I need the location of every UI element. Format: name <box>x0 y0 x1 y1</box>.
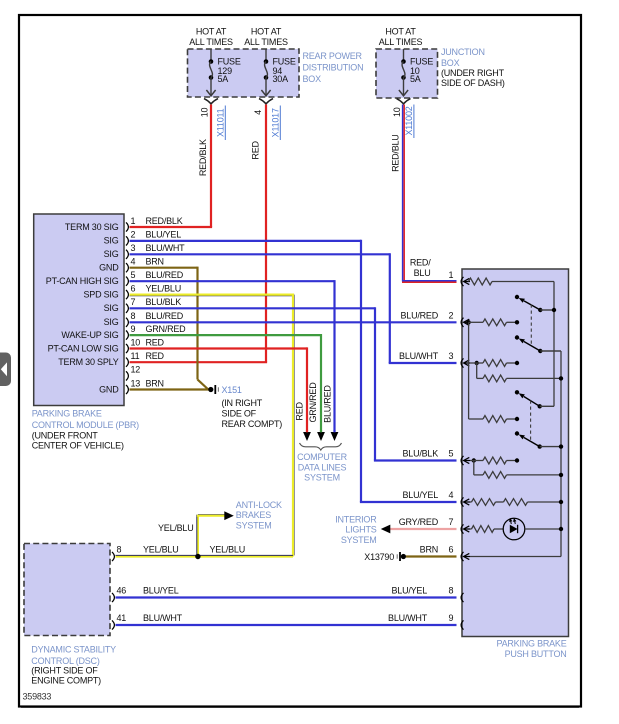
wire BLU/YEL PBR pin2 to push button pin4 <box>130 240 362 242</box>
resistor pin7 <box>470 528 472 530</box>
svg-text:JUNCTION: JUNCTION <box>441 47 485 57</box>
resistor pin5 upper <box>472 458 476 462</box>
svg-text:2: 2 <box>131 230 136 240</box>
pin3 lower branch <box>476 363 478 378</box>
svg-text:8: 8 <box>117 545 122 555</box>
svg-text:BRN: BRN <box>420 545 438 555</box>
svg-text:9: 9 <box>449 613 454 623</box>
wire YEL/BLU PBR pin6 riser <box>130 295 295 297</box>
PBR pin 8 (SIG) <box>126 318 128 327</box>
PBR pin 6 (SPD SIG) <box>126 290 128 299</box>
svg-text:12: 12 <box>131 365 141 375</box>
bus from pin1 to switch3 <box>553 282 555 407</box>
wire GRY/RED push button pin7 to interior lights <box>390 528 457 530</box>
dynamic stability control box (dashed) <box>24 544 110 636</box>
wire RED/BLK fuse129 to PBR pin1 <box>210 105 212 228</box>
svg-text:BLU: BLU <box>414 268 431 278</box>
interior lights arrow <box>381 525 391 534</box>
push button pin 9 connector <box>461 620 463 629</box>
svg-text:RED/BLK: RED/BLK <box>146 216 183 226</box>
svg-text:DYNAMIC STABILITY: DYNAMIC STABILITY <box>31 644 116 654</box>
svg-text:BLU/BLK: BLU/BLK <box>146 297 182 307</box>
svg-text:3: 3 <box>449 351 454 361</box>
anti-lock brakes arrow <box>224 511 234 520</box>
wire YEL/BLU DSC pin8 run <box>116 555 294 557</box>
DSC pin 8 <box>112 552 114 561</box>
push button pin 4 connector <box>461 497 463 506</box>
svg-text:BOX: BOX <box>441 58 460 68</box>
svg-text:YEL/BLU: YEL/BLU <box>143 545 178 555</box>
svg-text:REAR POWER: REAR POWER <box>303 51 363 61</box>
svg-text:HOT AT: HOT AT <box>251 27 282 37</box>
svg-text:41: 41 <box>117 613 127 623</box>
svg-text:SIG: SIG <box>104 317 119 327</box>
svg-text:BLU/WHT: BLU/WHT <box>388 613 428 623</box>
data line down arrows <box>303 432 311 441</box>
parking brake push button box <box>462 269 569 637</box>
svg-text:SIG: SIG <box>104 249 119 259</box>
svg-text:BLU/YEL: BLU/YEL <box>403 490 439 500</box>
svg-text:(RIGHT SIDE OF: (RIGHT SIDE OF <box>31 666 98 676</box>
svg-text:HOT AT: HOT AT <box>385 27 416 37</box>
svg-text:SIDE OF: SIDE OF <box>222 408 257 418</box>
svg-text:FUSE: FUSE <box>273 56 296 66</box>
svg-text:BRN: BRN <box>146 378 164 388</box>
svg-text:X11017: X11017 <box>270 108 280 137</box>
svg-text:RED/: RED/ <box>410 258 431 268</box>
svg-text:RED: RED <box>146 351 165 361</box>
svg-text:7: 7 <box>449 517 454 527</box>
svg-text:BLU/WHT: BLU/WHT <box>146 243 186 253</box>
svg-text:REAR COMPT): REAR COMPT) <box>222 419 283 429</box>
LED lamp <box>503 518 525 540</box>
svg-text:8: 8 <box>449 586 454 596</box>
svg-text:BLU/RED: BLU/RED <box>146 270 184 280</box>
switch S2 <box>515 335 519 339</box>
svg-text:DISTRIBUTION: DISTRIBUTION <box>303 63 364 73</box>
push button pin 3 connector <box>461 358 463 367</box>
PBR pin 7 (SIG) <box>126 304 128 313</box>
svg-text:CONTROL MODULE (PBR): CONTROL MODULE (PBR) <box>32 420 139 430</box>
bus switch2 to pin6 <box>560 351 562 557</box>
svg-text:7: 7 <box>131 297 136 307</box>
PBR pin 1 (TERM 30 SIG) <box>126 222 128 231</box>
svg-text:PUSH BUTTON: PUSH BUTTON <box>505 649 567 659</box>
svg-text:X151: X151 <box>222 385 242 395</box>
svg-text:8: 8 <box>131 311 136 321</box>
svg-text:DATA LINES: DATA LINES <box>298 462 347 472</box>
wire BLU/WHT DSC pin41 to push button pin9 <box>116 624 457 626</box>
svg-text:ENGINE COMPT): ENGINE COMPT) <box>31 675 101 685</box>
svg-text:CONTROL (DSC): CONTROL (DSC) <box>31 656 100 666</box>
svg-text:PT-CAN LOW SIG: PT-CAN LOW SIG <box>48 343 119 353</box>
svg-text:46: 46 <box>117 586 127 596</box>
PBR pin 5 (PT-CAN HIGH SIG) <box>126 277 128 286</box>
left edge navigation tab <box>0 353 11 387</box>
svg-text:COMPUTER: COMPUTER <box>297 452 347 462</box>
svg-text:(UNDER RIGHT: (UNDER RIGHT <box>441 68 505 78</box>
svg-text:SYSTEM: SYSTEM <box>304 473 340 483</box>
rear power distribution box (dashed) <box>188 49 300 97</box>
svg-text:1: 1 <box>131 216 136 226</box>
svg-text:SIG: SIG <box>104 236 119 246</box>
DSC pin 46 <box>112 593 114 602</box>
PBR pin 3 (SIG) <box>126 250 128 259</box>
svg-text:BLU/RED: BLU/RED <box>146 311 184 321</box>
svg-text:GND: GND <box>99 384 119 394</box>
svg-text:CENTER OF VEHICLE): CENTER OF VEHICLE) <box>32 441 124 451</box>
svg-text:(IN RIGHT: (IN RIGHT <box>222 398 263 408</box>
svg-text:30A: 30A <box>273 74 289 84</box>
svg-text:FUSE: FUSE <box>410 56 433 66</box>
svg-text:YEL/BLU: YEL/BLU <box>210 545 245 555</box>
pin2 lower branch <box>468 322 470 419</box>
svg-text:BLU/RED: BLU/RED <box>322 385 332 423</box>
svg-text:BOX: BOX <box>303 74 322 84</box>
svg-text:10: 10 <box>131 337 141 347</box>
svg-text:GND: GND <box>99 263 119 273</box>
svg-text:4: 4 <box>449 490 454 500</box>
wire BLU/RED PBR pin8 to push button pin2 <box>130 321 457 323</box>
gang dash S1-S2 <box>530 305 532 346</box>
PBR pin 11 (TERM 30 SPLY) <box>126 358 128 367</box>
svg-text:GRN/RED: GRN/RED <box>308 382 318 423</box>
LED to bus <box>525 528 561 530</box>
svg-text:GRY/RED: GRY/RED <box>399 517 439 527</box>
svg-text:SIG: SIG <box>104 303 119 313</box>
svg-text:5: 5 <box>131 270 136 280</box>
wire RED PBR pin10 to data lines <box>130 347 308 349</box>
DSC pin 41 <box>112 620 114 629</box>
svg-text:X13790: X13790 <box>364 552 394 562</box>
junction box (dashed) <box>376 49 438 98</box>
svg-text:BLU/WHT: BLU/WHT <box>143 613 183 623</box>
svg-text:INTERIOR: INTERIOR <box>335 514 377 524</box>
svg-text:TERM 30 SPLY: TERM 30 SPLY <box>58 357 118 367</box>
svg-text:YEL/BLU: YEL/BLU <box>158 523 193 533</box>
wire RED/BLU into push button pin 1 <box>402 280 457 282</box>
PBR pin 4 (GND) <box>126 263 128 272</box>
PBR pin 9 (WAKE-UP SIG) <box>126 331 128 340</box>
svg-text:BLU/YEL: BLU/YEL <box>392 586 428 596</box>
svg-text:PARKING BRAKE: PARKING BRAKE <box>32 409 102 419</box>
svg-text:FUSE: FUSE <box>218 56 241 66</box>
resistors pin4 <box>470 501 472 503</box>
wire BLU/WHT PBR pin3 to push button pin3 <box>130 253 390 255</box>
resistor pin3 upper <box>475 361 479 365</box>
svg-text:9: 9 <box>131 324 136 334</box>
resistor pin2 <box>466 320 470 324</box>
fuse 10 symbol <box>403 49 405 62</box>
splice X151 <box>208 387 213 392</box>
PBR pin 13 (GND) <box>126 385 128 394</box>
svg-text:PARKING BRAKE: PARKING BRAKE <box>497 638 567 648</box>
gang dash S3-S4 <box>530 401 532 442</box>
push button pin 6 connector <box>461 552 463 561</box>
connector cup below fuse 129 <box>204 99 218 104</box>
wire BRN X13790 to push button pin6 <box>406 555 457 557</box>
svg-text:GRN/RED: GRN/RED <box>146 324 187 334</box>
svg-text:BRN: BRN <box>146 257 164 267</box>
svg-text:SYSTEM: SYSTEM <box>341 535 377 545</box>
svg-text:SPD SIG: SPD SIG <box>84 289 119 299</box>
wire RED/BLU fuse10 down <box>402 105 404 282</box>
svg-text:SYSTEM: SYSTEM <box>236 520 272 530</box>
svg-text:10: 10 <box>392 107 402 117</box>
resistor pin1 <box>469 278 492 285</box>
svg-text:BRAKES: BRAKES <box>236 510 271 520</box>
svg-text:PT-CAN HIGH SIG: PT-CAN HIGH SIG <box>46 276 119 286</box>
svg-text:4: 4 <box>131 257 136 267</box>
wire BLU/BLK PBR pin7 to push button pin5 <box>130 307 376 309</box>
svg-text:1: 1 <box>449 270 454 280</box>
svg-text:BLU/YEL: BLU/YEL <box>143 586 179 596</box>
svg-text:5: 5 <box>449 449 454 459</box>
svg-text:2: 2 <box>449 311 454 321</box>
PBR pin 10 (PT-CAN LOW SIG) <box>126 344 128 353</box>
push button pin 7 connector <box>461 524 463 533</box>
wire RED fuse94 to PBR pin11 <box>265 105 267 363</box>
svg-text:BLU/RED: BLU/RED <box>401 311 439 321</box>
svg-text:ALL TIMES: ALL TIMES <box>189 37 233 47</box>
PBR pin 2 (SIG) <box>126 236 128 245</box>
fuse 94 symbol <box>265 49 267 62</box>
svg-text:ANTI-LOCK: ANTI-LOCK <box>236 500 282 510</box>
svg-text:RED: RED <box>251 141 261 160</box>
svg-text:WAKE-UP SIG: WAKE-UP SIG <box>61 330 118 340</box>
svg-text:TERM 30 SIG: TERM 30 SIG <box>65 222 119 232</box>
push button pin 2 connector <box>461 318 463 327</box>
wire GRN/RED PBR pin9 to data lines <box>130 334 322 336</box>
svg-text:HOT AT: HOT AT <box>196 27 227 37</box>
wire BLU/RED PBR pin5 to data lines <box>130 280 335 282</box>
svg-text:BLU/WHT: BLU/WHT <box>399 351 439 361</box>
push button pin 5 connector <box>461 456 463 465</box>
fuse 129 symbol <box>210 49 212 62</box>
svg-text:RED/BLU: RED/BLU <box>390 134 400 171</box>
push button pin 8 connector <box>461 593 463 602</box>
svg-text:BLU/YEL: BLU/YEL <box>146 230 182 240</box>
svg-text:359833: 359833 <box>23 691 52 701</box>
wire YEL/BLU branch to anti-lock <box>197 516 199 557</box>
connector cup below fuse 94 <box>259 99 273 104</box>
svg-text:X11002: X11002 <box>404 106 414 135</box>
svg-text:4: 4 <box>253 110 263 115</box>
svg-text:6: 6 <box>449 545 454 555</box>
svg-text:RED: RED <box>146 337 165 347</box>
svg-text:5A: 5A <box>410 74 421 84</box>
svg-text:X11011: X11011 <box>215 108 225 137</box>
wire BRN PBR pin13 to X151 <box>130 388 211 390</box>
svg-text:YEL/BLU: YEL/BLU <box>146 283 181 293</box>
svg-text:5A: 5A <box>218 74 229 84</box>
underbrace computer data lines <box>300 443 342 450</box>
svg-text:RED: RED <box>295 402 305 421</box>
svg-text:LIGHTS: LIGHTS <box>345 525 376 535</box>
svg-text:ALL TIMES: ALL TIMES <box>244 37 288 47</box>
svg-text:13: 13 <box>131 378 141 388</box>
wire BRN PBR pin4 to X151 <box>130 267 198 269</box>
svg-text:RED/BLK: RED/BLK <box>198 139 208 176</box>
svg-text:(UNDER FRONT: (UNDER FRONT <box>32 430 99 440</box>
svg-text:6: 6 <box>131 283 136 293</box>
push button pin 1 connector <box>461 277 463 286</box>
connector cup below fuse 10 <box>397 99 411 104</box>
svg-text:SIDE OF DASH): SIDE OF DASH) <box>441 78 505 88</box>
switch S3 <box>515 390 519 394</box>
wire BLU/YEL DSC pin46 to push button pin8 <box>116 596 457 598</box>
svg-text:BLU/BLK: BLU/BLK <box>403 449 439 459</box>
switch S4 <box>515 431 519 435</box>
pin5 lower branch <box>473 461 475 475</box>
svg-text:3: 3 <box>131 243 136 253</box>
PBR pin 12 (nc) <box>126 371 128 380</box>
svg-text:11: 11 <box>131 351 140 361</box>
switch S1 <box>515 295 519 299</box>
svg-text:10: 10 <box>199 108 209 118</box>
svg-text:ALL TIMES: ALL TIMES <box>379 37 423 47</box>
parking brake control module box <box>34 214 124 406</box>
junction dot yellow wires <box>195 554 200 559</box>
